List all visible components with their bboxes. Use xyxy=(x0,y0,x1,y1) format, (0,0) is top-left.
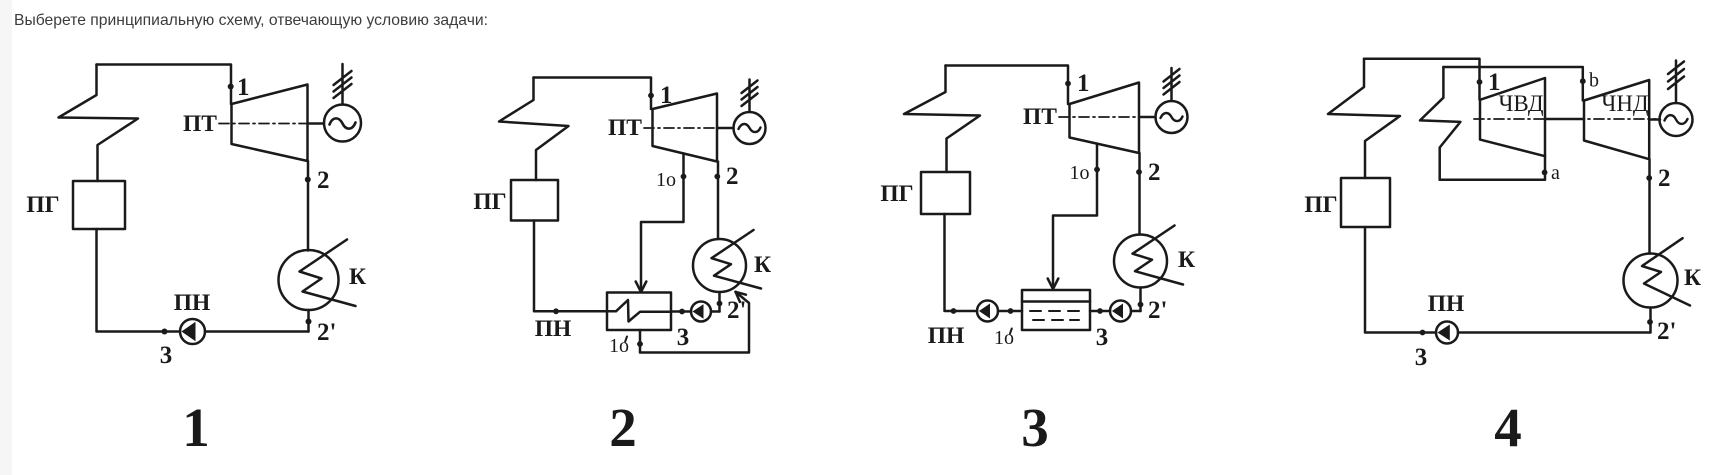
svg-text:2': 2' xyxy=(727,297,746,324)
wire: feed line back to boiler xyxy=(1365,227,1436,333)
svg-text:ПН: ПН xyxy=(1428,291,1465,317)
wire: condensate out of condenser xyxy=(718,292,721,312)
wire: shaft between cylinders xyxy=(1545,118,1584,121)
wire: boiler outlet riser with break (zigzag) xyxy=(59,65,139,182)
wire: main steam line to turbine xyxy=(534,78,652,110)
svg-text:3: 3 xyxy=(1415,344,1428,371)
svg-text:1о: 1о xyxy=(656,169,676,191)
svg-text:К: К xyxy=(1684,265,1701,291)
svg-text:ЧНД: ЧНД xyxy=(1601,91,1649,116)
steam generator ПГ (box) xyxy=(73,181,125,229)
wire: condensate to pump xyxy=(711,310,720,313)
svg-text:2: 2 xyxy=(1148,159,1161,186)
wire: condensate out of condenser xyxy=(1649,308,1652,333)
pump ПН (circle with triangle) xyxy=(1436,322,1458,344)
arrowhead into heater xyxy=(636,282,647,293)
feed pump ПН (circle with triangle) xyxy=(977,301,998,322)
reheater break (zigzag) xyxy=(1420,67,1460,180)
svg-text:ПГ: ПГ xyxy=(1304,192,1337,218)
svg-text:ПГ: ПГ xyxy=(880,181,913,207)
node (after feed pump) xyxy=(1008,308,1014,314)
wire: pump to mixing heater xyxy=(1090,310,1110,313)
water level dashes xyxy=(1030,311,1079,320)
node 2 xyxy=(305,177,311,183)
ground (earth) symbol above generator xyxy=(742,80,758,113)
arrowhead into condenser xyxy=(736,292,746,302)
node 1 xyxy=(648,93,654,99)
wire: turbine exhaust to condenser xyxy=(1138,153,1141,235)
svg-text:1: 1 xyxy=(237,74,250,101)
wire: pump to heater xyxy=(671,310,691,313)
condenser cooling-water coil xyxy=(1133,226,1184,285)
node 2' xyxy=(1647,319,1653,325)
pump (circle with triangle) xyxy=(691,302,711,322)
svg-text:a: a xyxy=(1551,162,1560,184)
wire: condensate out of condenser xyxy=(1139,288,1142,312)
wire: LP exhaust to condenser xyxy=(1648,159,1651,253)
node 2' xyxy=(717,301,723,307)
svg-text:2: 2 xyxy=(726,163,739,190)
svg-text:ЧВД: ЧВД xyxy=(1498,91,1543,116)
node (corner junction) xyxy=(951,308,957,314)
pump ПН (circle with triangle) xyxy=(180,319,205,344)
wire: boiler outlet riser with break (zigzag) xyxy=(499,78,569,181)
svg-text:1: 1 xyxy=(1077,70,1090,97)
wire: heater drain to condenser (with arrow) xyxy=(640,292,749,353)
node 3 xyxy=(162,329,168,335)
wire: main steam line to turbine xyxy=(97,65,232,105)
wire: cold reheat line from a xyxy=(1440,156,1545,180)
generator G3 (circle with sine) xyxy=(1156,101,1188,133)
svg-text:1о: 1о xyxy=(1070,162,1090,184)
node b xyxy=(1580,78,1586,84)
wire: feed line back to boiler xyxy=(945,214,978,311)
wire: turbine to generator shaft xyxy=(1139,116,1156,119)
wire: extraction steam to mixing heater (with arrow) xyxy=(1053,144,1097,288)
node 3 xyxy=(679,309,685,315)
svg-text:2': 2' xyxy=(1148,297,1167,324)
mixing heater (open box with water level) xyxy=(1022,290,1090,330)
wire: main steam line to HP turbine xyxy=(1364,59,1480,100)
svg-text:2: 2 xyxy=(1658,165,1671,192)
node 3 xyxy=(1097,308,1103,314)
svg-text:ПТ: ПТ xyxy=(608,115,642,141)
svg-text:3: 3 xyxy=(677,324,690,351)
wire: condensate out of condenser xyxy=(307,310,310,332)
wire: condensate line to pump xyxy=(205,330,309,333)
wire: extraction steam to heater (with arrow) xyxy=(641,154,684,292)
steam generator ПГ (box) xyxy=(921,172,970,214)
svg-text:ПН: ПН xyxy=(535,316,572,342)
condenser К (circle) xyxy=(1114,235,1167,288)
condenser К (circle) xyxy=(693,239,746,292)
svg-text:3: 3 xyxy=(160,342,173,369)
svg-text:2': 2' xyxy=(1657,318,1676,345)
svg-text:ПГ: ПГ xyxy=(26,192,59,218)
shaft centerline (dash-dot) xyxy=(1059,116,1156,118)
shaft centerline (dash-dot) xyxy=(219,123,324,125)
svg-text:ПТ: ПТ xyxy=(183,111,217,137)
svg-text:ПГ: ПГ xyxy=(473,189,506,215)
node 3 xyxy=(1420,330,1426,336)
wire: hot reheat line to LP turbine xyxy=(1443,67,1582,101)
svg-text:ПТ: ПТ xyxy=(1023,104,1057,130)
heater coil xyxy=(607,300,671,322)
svg-text:2: 2 xyxy=(609,397,637,458)
node 1 xyxy=(1477,79,1483,85)
generator G1 (circle with sine) xyxy=(324,105,361,142)
svg-text:b: b xyxy=(1589,70,1599,92)
node 1 xyxy=(1065,81,1071,87)
condenser К (circle) xyxy=(1624,254,1678,308)
shaft centerline (dash-dot) xyxy=(1474,118,1656,120)
wire: turbine exhaust to condenser xyxy=(307,161,310,251)
svg-text:2: 2 xyxy=(317,167,330,194)
wire: condensate line to pump xyxy=(1458,331,1650,334)
condenser К (circle) xyxy=(279,250,339,310)
steam generator ПГ (box) xyxy=(511,180,558,221)
ground (earth) symbol above generator xyxy=(1668,61,1684,104)
svg-text:2': 2' xyxy=(317,319,336,346)
turbine ПТ xyxy=(232,85,308,162)
ground (earth) symbol above generator xyxy=(334,64,352,105)
wire: boiler outlet riser with break (zigzag) xyxy=(1328,59,1400,178)
condenser cooling-water coil xyxy=(712,230,762,289)
svg-text:4: 4 xyxy=(1494,397,1522,458)
generator G2 (circle with sine) xyxy=(734,112,766,144)
wire: mixing heater to feed pump xyxy=(998,310,1022,313)
steam generator ПГ (box) xyxy=(1341,178,1390,227)
turbine ЧНД (LP cylinder) xyxy=(1584,80,1649,159)
turbine ПТ xyxy=(1070,83,1140,154)
heater (surface type, box with coil) xyxy=(607,293,671,331)
turbine ПТ xyxy=(653,94,718,162)
wire: shaft to generator xyxy=(1649,118,1660,121)
svg-text:ПН: ПН xyxy=(174,290,211,316)
wire: feed line from boiler leg to heater xyxy=(534,221,607,312)
wire: main steam line to turbine xyxy=(946,66,1069,105)
node a xyxy=(1542,170,1548,176)
node 1о' (drain) xyxy=(637,341,643,347)
node 2 xyxy=(714,174,720,180)
node 2' xyxy=(1138,302,1144,308)
svg-text:К: К xyxy=(1178,247,1195,273)
node 2 xyxy=(1136,169,1142,175)
condenser cooling-water coil xyxy=(300,240,356,307)
wire: turbine to generator shaft xyxy=(308,122,325,125)
generator G4 (circle with sine) xyxy=(1660,103,1693,136)
wire: turbine to generator shaft xyxy=(717,127,734,130)
svg-text:1: 1 xyxy=(182,397,210,458)
wire: turbine exhaust to condenser xyxy=(717,162,720,240)
wire: feed line back to boiler xyxy=(97,229,181,332)
ground (earth) symbol above generator xyxy=(1164,68,1180,101)
node 2 xyxy=(1646,175,1652,181)
condenser cooling-water coil xyxy=(1642,238,1690,305)
turbine ЧВД (HP cylinder) xyxy=(1480,78,1545,156)
svg-text:3: 3 xyxy=(1096,324,1109,351)
wire: condensate to condensate pump xyxy=(1131,310,1141,313)
mixing heater top separator line xyxy=(1022,300,1090,303)
arrowhead into mixing heater xyxy=(1048,279,1059,290)
node (feed junction) xyxy=(553,308,559,314)
svg-text:3: 3 xyxy=(1021,397,1049,458)
svg-text:К: К xyxy=(349,264,366,290)
svg-text:ПН: ПН xyxy=(928,323,965,349)
node 1 xyxy=(228,84,234,90)
node 1о (extraction) xyxy=(681,174,687,180)
svg-text:К: К xyxy=(754,252,771,278)
shaft centerline (dash-dot) xyxy=(644,127,734,129)
wire: boiler outlet riser with break (zigzag) xyxy=(904,66,980,173)
node 2' xyxy=(306,319,312,325)
condensate pump (circle with triangle) xyxy=(1110,301,1131,322)
node 1о (extraction) xyxy=(1094,167,1100,173)
